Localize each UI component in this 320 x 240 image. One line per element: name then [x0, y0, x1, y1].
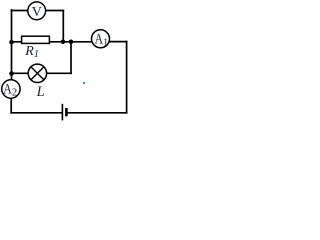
node junction dot left rail at lamp branch [9, 71, 14, 76]
voltmeter V [28, 2, 46, 20]
wire top-left horizontal to voltmeter [12, 10, 28, 12]
wire left rail middle segment [11, 42, 13, 74]
ammeter A1 [92, 30, 110, 49]
wire vertical from voltmeter branch down to node [62, 11, 64, 42]
svg-text:1: 1 [103, 38, 108, 49]
wire right rail vertical [126, 42, 128, 113]
node junction dot left rail at resistor branch [9, 40, 14, 45]
wire left rail bottom below ammeter A2 [10, 99, 12, 113]
svg-text:A: A [95, 31, 104, 47]
wire left rail upper segment [11, 10, 13, 42]
battery long plate [61, 104, 63, 121]
lamp L [28, 64, 46, 82]
battery short plate [65, 108, 68, 116]
svg-text:A: A [3, 81, 12, 97]
wire lamp branch from left rail [12, 72, 29, 74]
wire lamp branch vertical up to node [70, 42, 72, 74]
svg-text:R1: R1 [24, 44, 39, 60]
wire bottom left from battery to left rail [11, 112, 61, 114]
wire voltmeter right to corner [46, 10, 63, 12]
svg-text:V: V [32, 5, 42, 20]
stray blue dot [83, 82, 85, 84]
wire ammeter A1 right to right rail corner [110, 41, 127, 43]
wire resistor branch right to ammeter A1 [50, 41, 92, 43]
ammeter A2 [2, 80, 20, 99]
svg-text:L: L [36, 84, 45, 100]
svg-text:2: 2 [12, 87, 17, 99]
wire resistor branch left [12, 41, 22, 43]
node junction dot lamp branch [69, 40, 74, 45]
node junction dot voltmeter branch [61, 40, 66, 45]
wire left rail lower segment to ammeter A2 [11, 73, 13, 79]
resistor R1 box [22, 36, 50, 43]
wire bottom right from rail to battery [67, 112, 126, 114]
wire lamp right horizontal [47, 72, 71, 74]
